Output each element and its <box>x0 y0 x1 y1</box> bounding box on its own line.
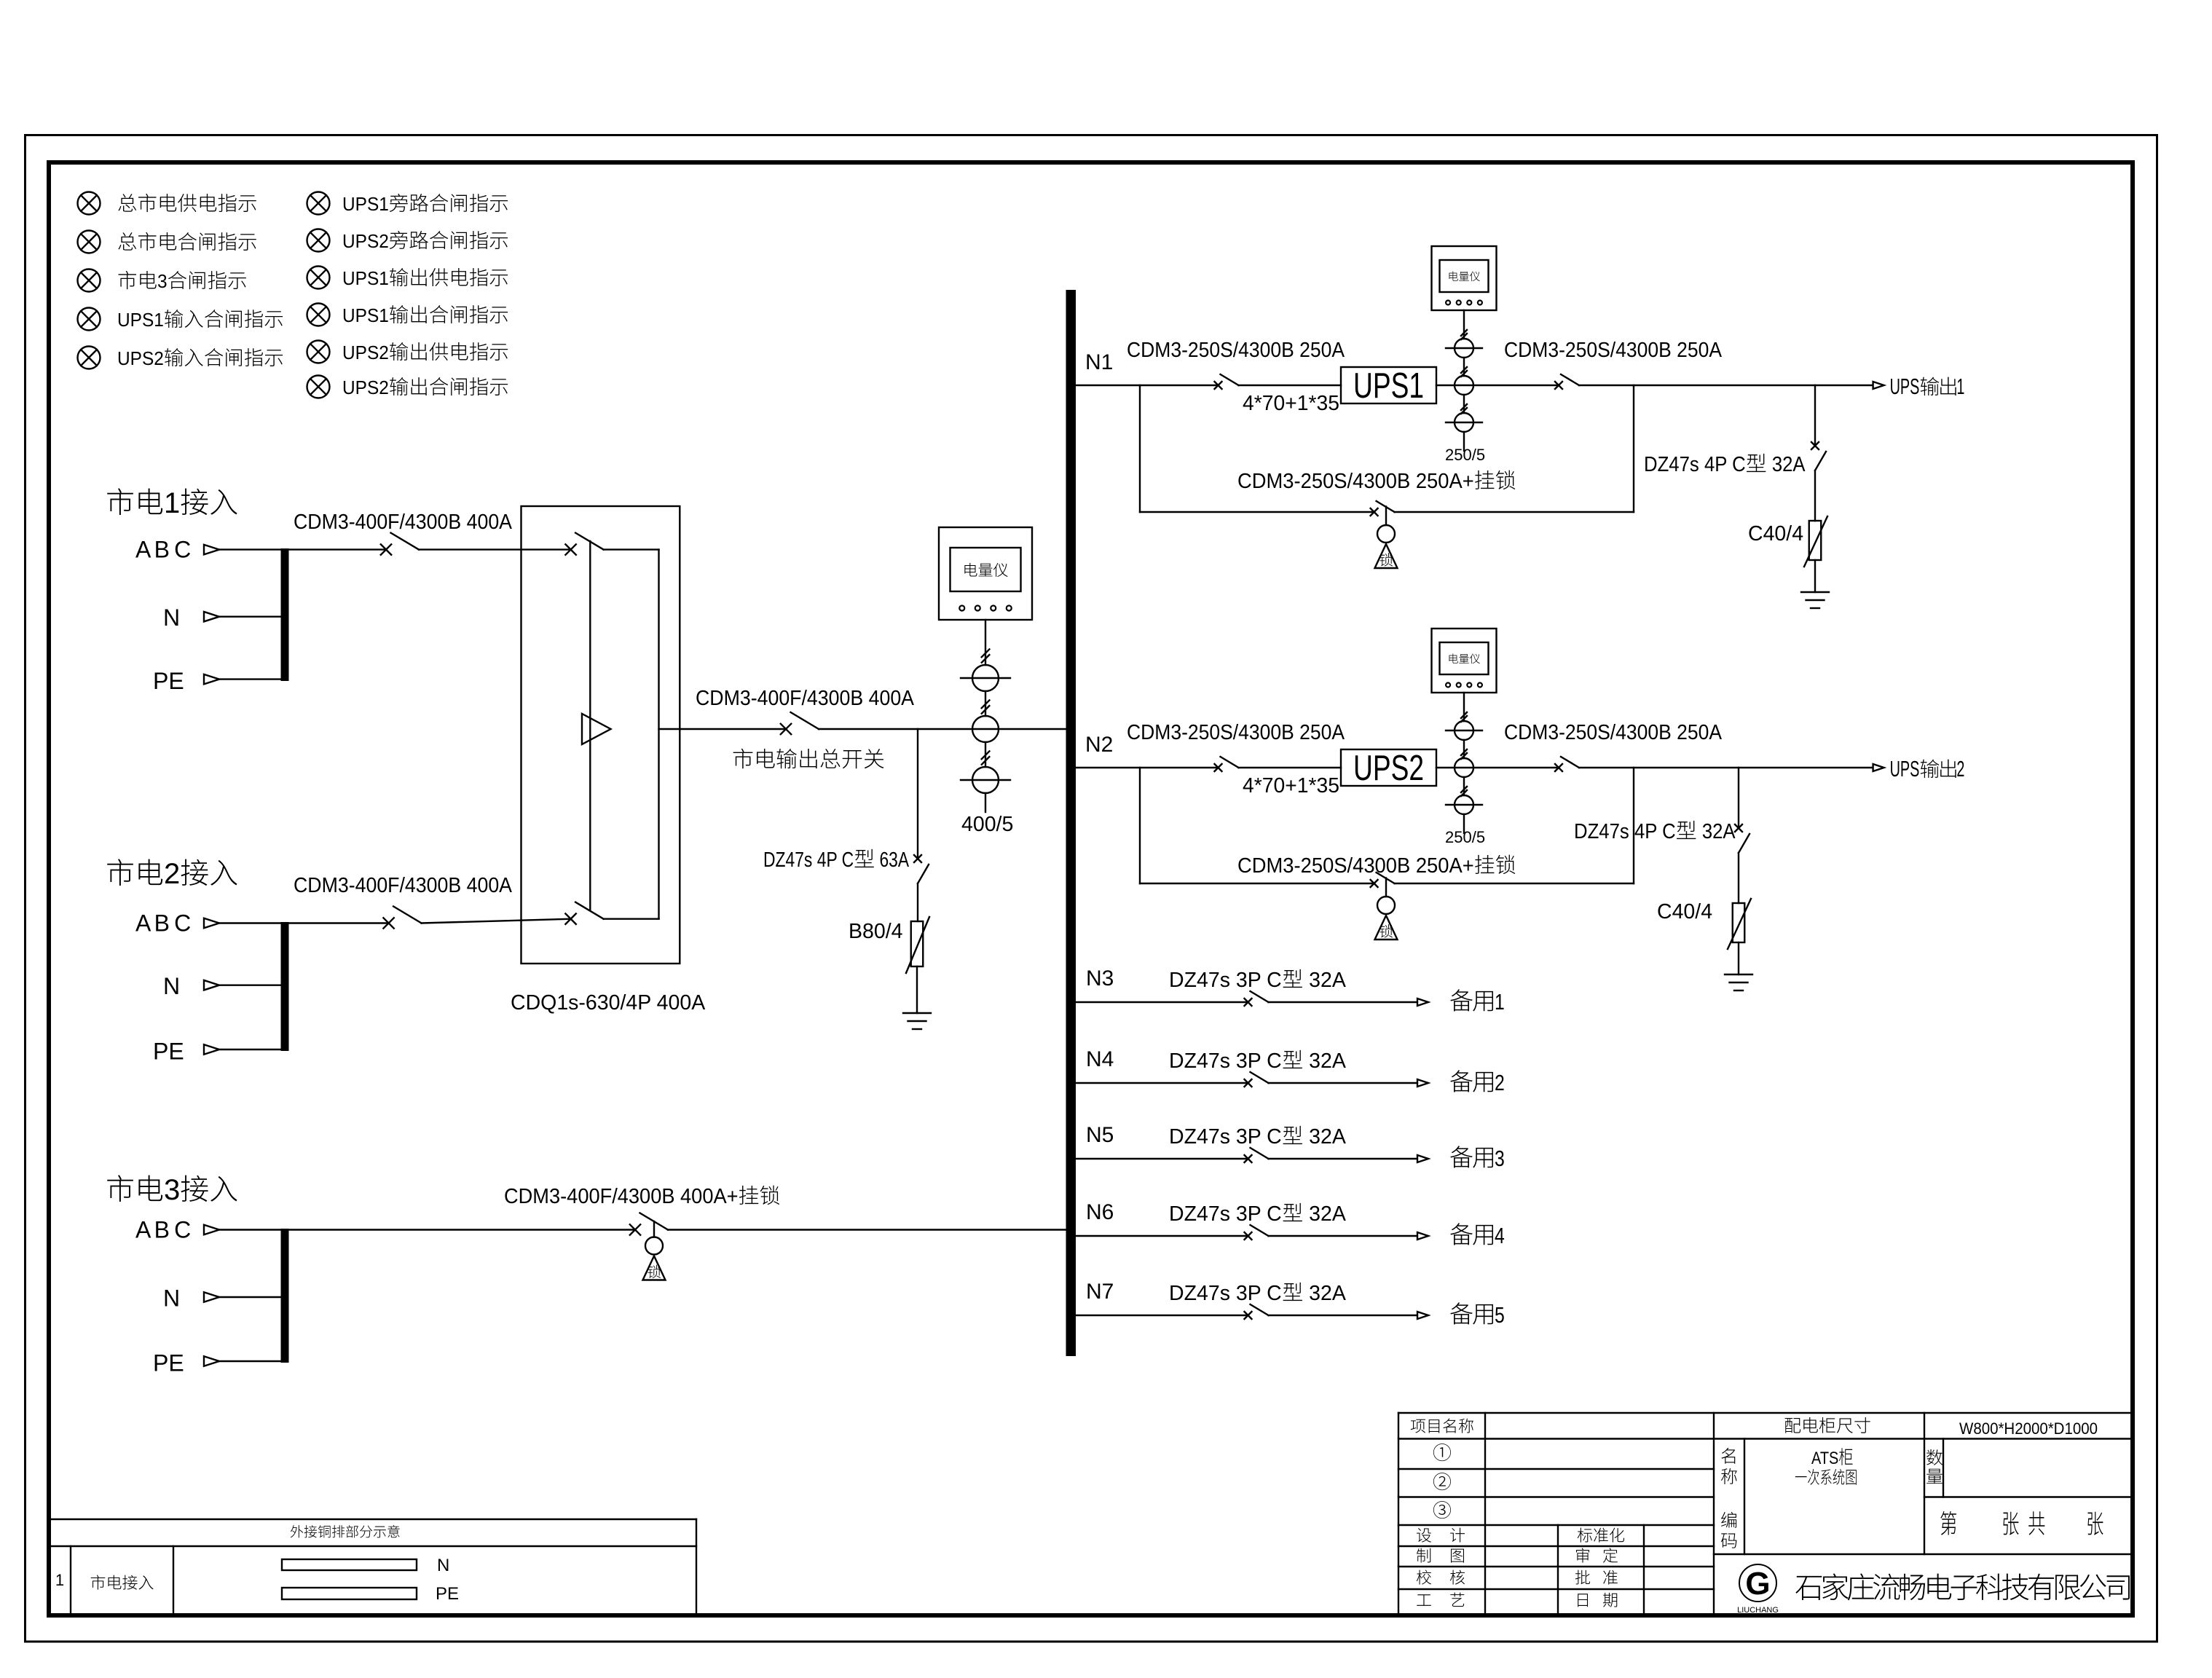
svg-text:UPS2: UPS2 <box>342 377 389 398</box>
svg-text:UPS1: UPS1 <box>117 309 164 331</box>
svg-text:4: 4 <box>1495 1223 1505 1248</box>
svg-text:CDM3-400F/4300B 400A: CDM3-400F/4300B 400A <box>294 511 512 534</box>
svg-text:PE: PE <box>153 1039 184 1065</box>
svg-text:32A: 32A <box>1309 969 1346 992</box>
svg-text:CDM3-250S/4300B 250A: CDM3-250S/4300B 250A <box>1504 339 1722 362</box>
svg-text:DZ47s 3P C: DZ47s 3P C <box>1169 1282 1282 1305</box>
svg-text:N: N <box>163 604 180 631</box>
svg-text:A B C: A B C <box>135 537 190 563</box>
svg-text:1: 1 <box>1956 374 1964 399</box>
svg-text:CDM3-400F/4300B 400A+: CDM3-400F/4300B 400A+ <box>504 1185 739 1208</box>
svg-text:400/5: 400/5 <box>961 813 1013 836</box>
svg-text:UPS: UPS <box>1890 374 1920 399</box>
svg-text:5: 5 <box>1495 1302 1505 1328</box>
svg-text:DZ47s 4P C: DZ47s 4P C <box>1644 453 1746 476</box>
svg-text:32A: 32A <box>1309 1202 1346 1226</box>
svg-text:B80/4: B80/4 <box>849 920 903 943</box>
svg-text:32A: 32A <box>1309 1282 1346 1305</box>
svg-text:UPS2: UPS2 <box>342 342 389 363</box>
svg-text:CDM3-250S/4300B 250A+: CDM3-250S/4300B 250A+ <box>1237 854 1474 878</box>
svg-text:32A: 32A <box>1772 453 1806 476</box>
svg-text:CDQ1s-630/4P 400A: CDQ1s-630/4P 400A <box>511 991 705 1015</box>
svg-text:CDM3-250S/4300B 250A: CDM3-250S/4300B 250A <box>1127 339 1345 362</box>
svg-text:DZ47s 4P C: DZ47s 4P C <box>1574 820 1676 843</box>
svg-text:32A: 32A <box>1309 1049 1346 1073</box>
svg-text:63A: 63A <box>880 848 910 872</box>
svg-text:UPS2: UPS2 <box>117 347 164 369</box>
svg-text:3: 3 <box>157 270 168 292</box>
svg-text:G: G <box>1745 1566 1770 1602</box>
svg-text:N6: N6 <box>1086 1200 1114 1224</box>
svg-text:4*70+1*35: 4*70+1*35 <box>1243 392 1339 415</box>
svg-text:3: 3 <box>1495 1146 1505 1171</box>
svg-text:W800*H2000*D1000: W800*H2000*D1000 <box>1959 1419 2098 1438</box>
svg-text:N: N <box>437 1556 449 1575</box>
svg-text:CDM3-250S/4300B 250A: CDM3-250S/4300B 250A <box>1504 721 1722 744</box>
svg-text:A B C: A B C <box>135 910 190 937</box>
svg-text:UPS: UPS <box>1890 756 1920 781</box>
svg-text:A B C: A B C <box>135 1217 190 1243</box>
svg-text:ATS: ATS <box>1811 1449 1838 1468</box>
svg-text:2: 2 <box>1495 1070 1505 1095</box>
svg-text:4*70+1*35: 4*70+1*35 <box>1243 774 1339 797</box>
svg-text:32A: 32A <box>1702 820 1736 843</box>
svg-text:LIUCHANG: LIUCHANG <box>1737 1606 1779 1615</box>
svg-text:CDM3-250S/4300B 250A+: CDM3-250S/4300B 250A+ <box>1237 470 1474 493</box>
svg-text:2: 2 <box>164 858 180 890</box>
svg-text:UPS2: UPS2 <box>342 230 389 252</box>
svg-text:DZ47s 3P C: DZ47s 3P C <box>1169 1202 1282 1226</box>
svg-text:N3: N3 <box>1086 966 1114 990</box>
svg-text:1: 1 <box>164 487 180 519</box>
svg-text:32A: 32A <box>1309 1125 1346 1149</box>
svg-text:DZ47s 3P C: DZ47s 3P C <box>1169 1049 1282 1073</box>
svg-text:DZ47s 4P C: DZ47s 4P C <box>763 848 854 872</box>
svg-text:N5: N5 <box>1086 1123 1114 1147</box>
svg-text:1: 1 <box>1495 989 1505 1015</box>
svg-text:UPS1: UPS1 <box>342 193 389 215</box>
svg-text:250/5: 250/5 <box>1445 828 1485 846</box>
svg-text:UPS2: UPS2 <box>1353 749 1424 788</box>
svg-text:2: 2 <box>1956 756 1964 781</box>
svg-text:CDM3-400F/4300B 400A: CDM3-400F/4300B 400A <box>294 874 512 897</box>
svg-text:C40/4: C40/4 <box>1657 900 1712 923</box>
svg-text:1: 1 <box>55 1571 64 1589</box>
svg-text:CDM3-250S/4300B 250A: CDM3-250S/4300B 250A <box>1127 721 1345 744</box>
svg-text:N: N <box>163 973 180 999</box>
svg-text:PE: PE <box>153 1350 184 1376</box>
svg-text:N7: N7 <box>1086 1280 1114 1304</box>
svg-text:N4: N4 <box>1086 1047 1114 1071</box>
svg-text:3: 3 <box>164 1174 180 1206</box>
svg-text:N2: N2 <box>1085 733 1113 757</box>
svg-text:N: N <box>163 1285 180 1312</box>
svg-text:C40/4: C40/4 <box>1748 522 1803 545</box>
svg-text:250/5: 250/5 <box>1445 446 1485 464</box>
svg-text:DZ47s 3P C: DZ47s 3P C <box>1169 1125 1282 1149</box>
svg-text:DZ47s 3P C: DZ47s 3P C <box>1169 969 1282 992</box>
svg-text:UPS1: UPS1 <box>342 267 389 289</box>
svg-text:PE: PE <box>436 1584 459 1604</box>
svg-text:UPS1: UPS1 <box>342 304 389 326</box>
svg-text:UPS1: UPS1 <box>1353 366 1424 406</box>
svg-text:CDM3-400F/4300B 400A: CDM3-400F/4300B 400A <box>696 687 914 710</box>
svg-text:N1: N1 <box>1085 350 1113 374</box>
svg-text:PE: PE <box>153 668 184 694</box>
